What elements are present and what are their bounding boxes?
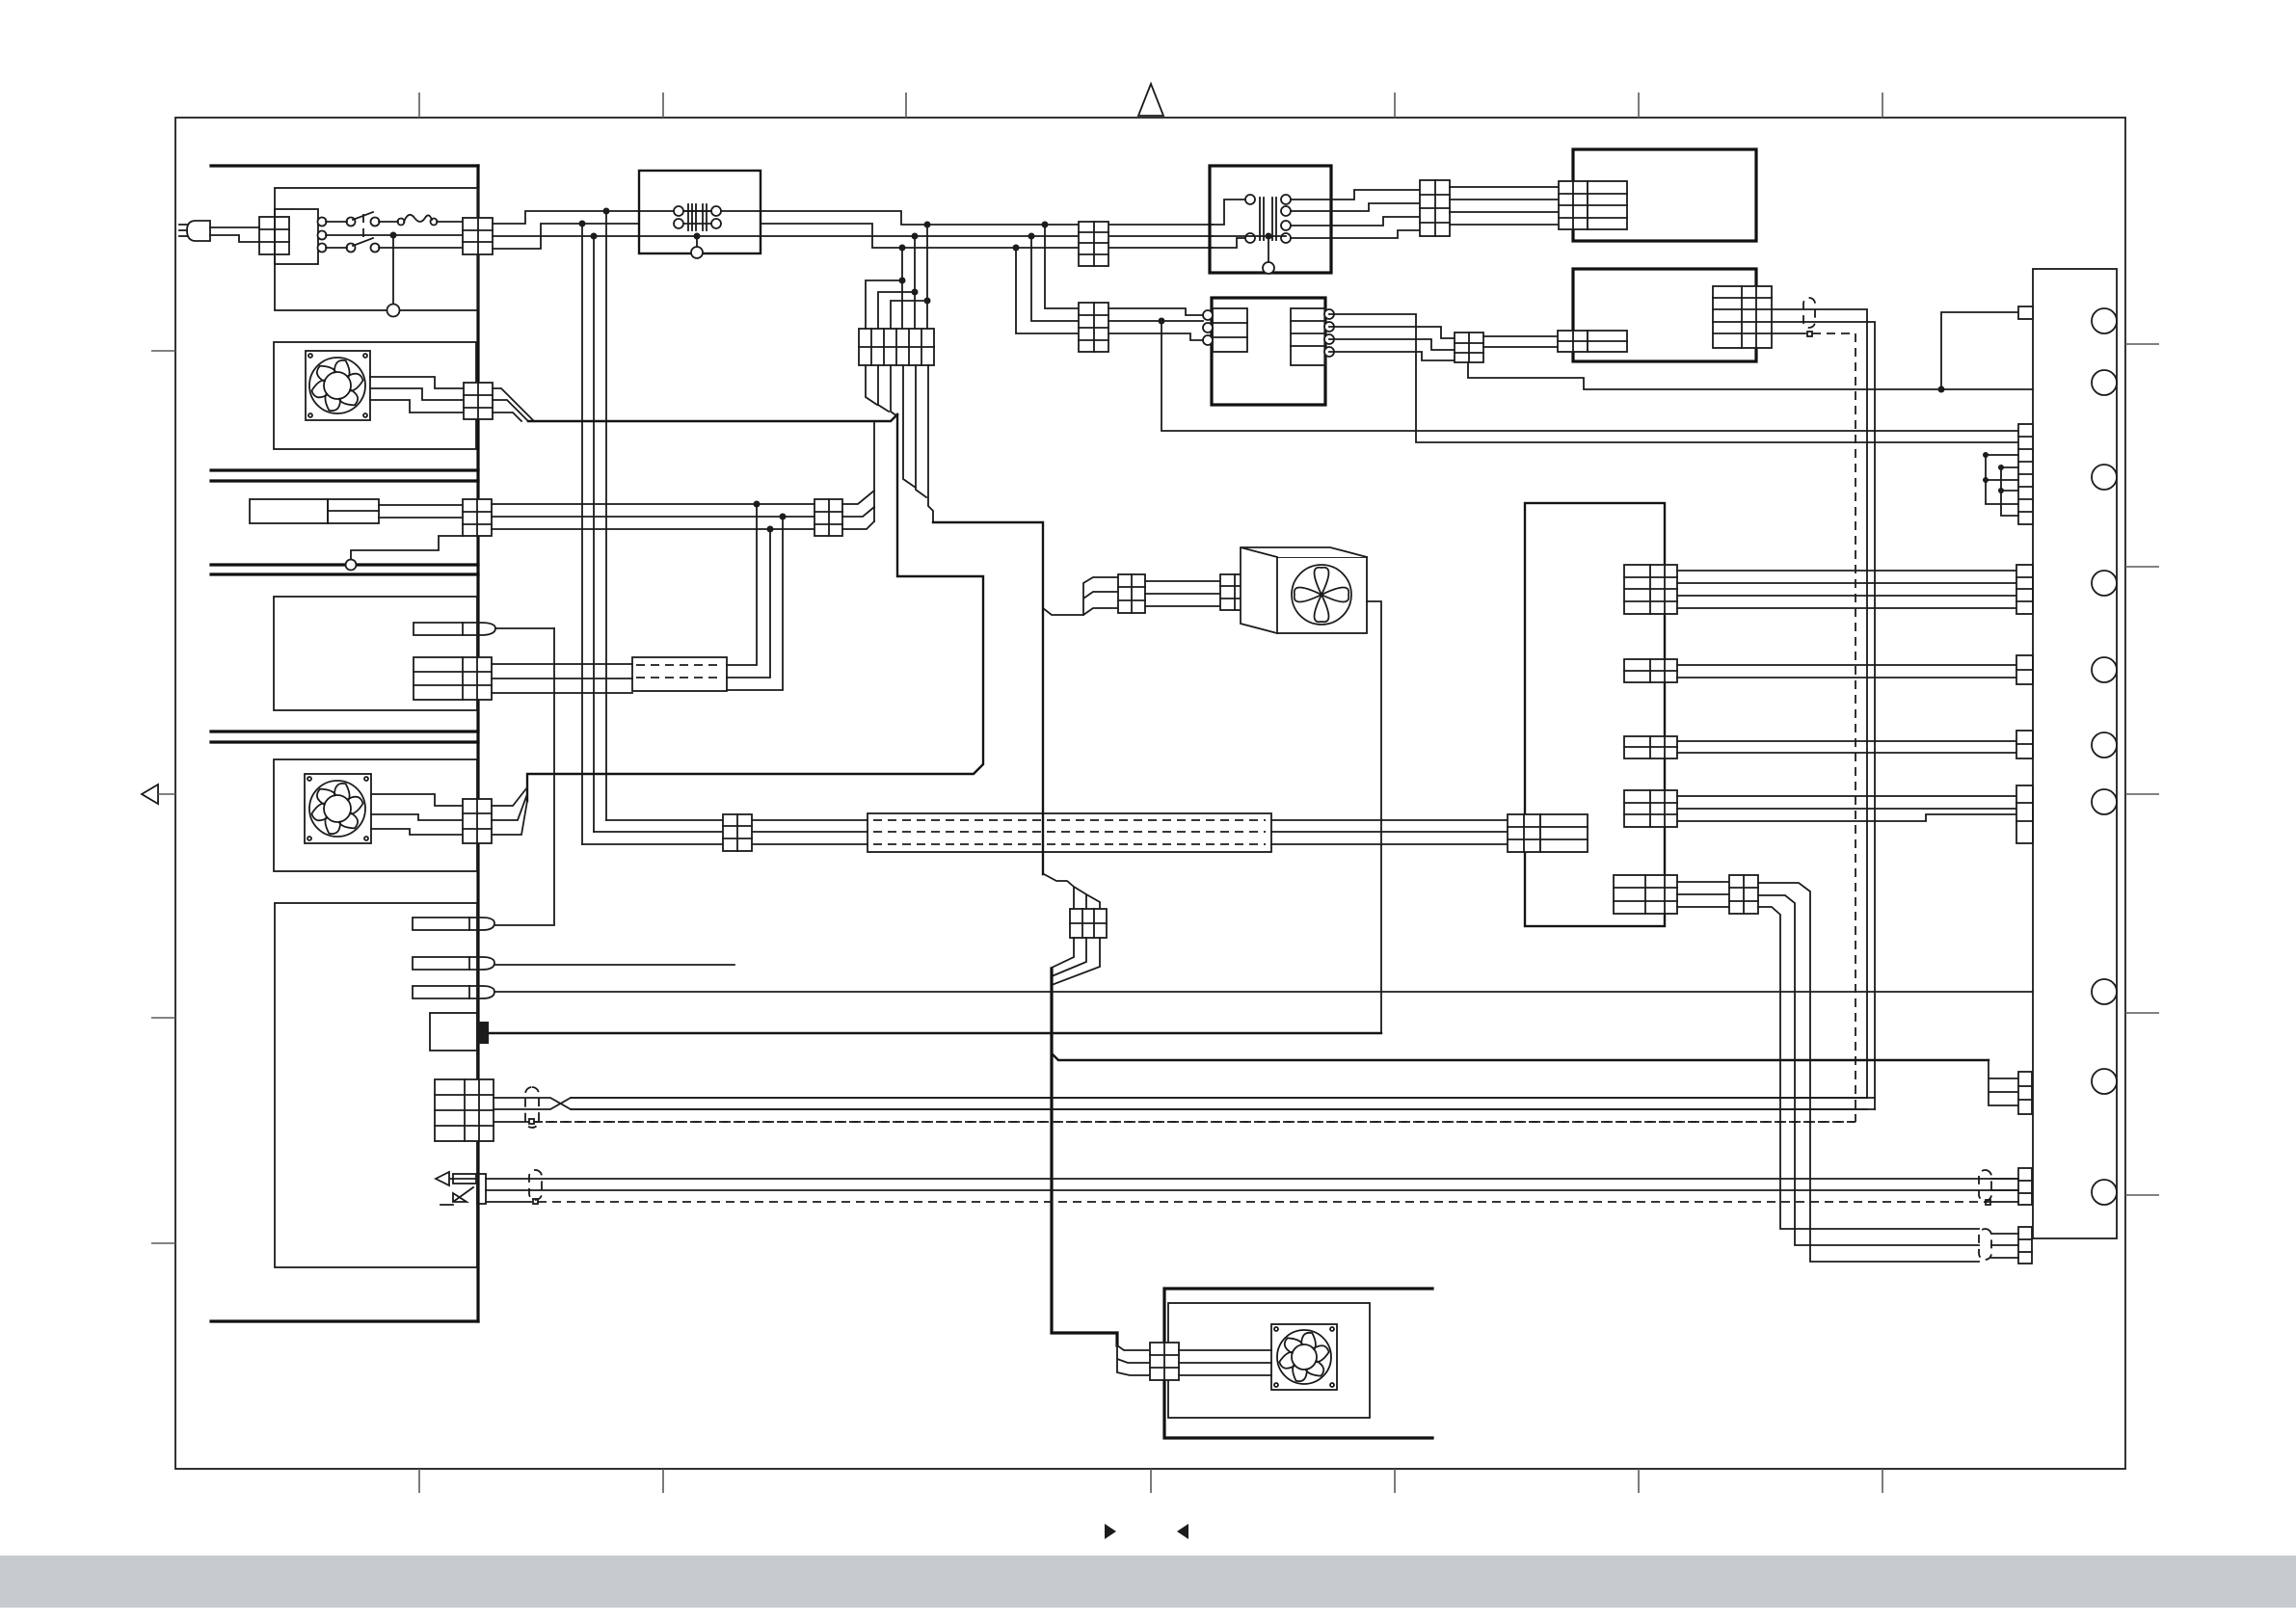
ferrite capsule top [1803, 298, 1815, 328]
tab grid m2 [2016, 655, 2033, 684]
comms wire dashed [494, 1121, 528, 1123]
board hole 10 [2092, 1180, 2117, 1205]
tab stack [2018, 424, 2033, 524]
connector CN fan3 a [1118, 574, 1145, 613]
branch to relay drive [1052, 1053, 1989, 1060]
thermal connector bar [477, 1174, 486, 1204]
junction node a [603, 208, 610, 215]
AC trunk wire N [493, 235, 1213, 237]
bundle below CN heater [1052, 938, 1100, 985]
faston wire 2 [494, 964, 734, 966]
wire sec1 long to tab [1329, 314, 2018, 442]
inlet pins [318, 218, 327, 226]
junction node p [899, 278, 906, 284]
connector CN m2 [1624, 659, 1677, 682]
connector CN psu in [1559, 181, 1627, 229]
comms return bends [571, 1097, 1867, 1099]
comms wire 2 with twist [494, 1098, 1875, 1109]
main board left lower box [275, 903, 477, 1267]
border tick marks left [151, 351, 175, 1243]
m5 drop wires [1758, 883, 1979, 1262]
wire plug to inlet [210, 226, 259, 228]
junction node s [1983, 452, 1989, 458]
junction node g1 [1042, 222, 1049, 228]
fan3 branch steps [1043, 577, 1118, 615]
connector CN mainboard in [1508, 814, 1588, 852]
ctrl out wire 1 [1772, 309, 1867, 1098]
interlock unit box [274, 597, 477, 710]
fan2 enclosure [274, 759, 477, 871]
primary pins [1203, 310, 1213, 320]
AC plug [187, 221, 210, 241]
AC bus step to CN heater [1044, 874, 1100, 909]
connector CN power out [463, 218, 493, 254]
tab IO mid [2018, 1072, 2032, 1114]
vertical drop a [605, 211, 607, 820]
engine board tall box [2033, 269, 2117, 1238]
filter ground [694, 233, 701, 240]
junction node b [579, 221, 586, 227]
connector CN fan2 [463, 799, 492, 843]
connector CN sens2 [814, 499, 842, 536]
ferrite capsule comms [525, 1087, 539, 1128]
page border frame [175, 118, 2125, 1469]
m1 wires [1677, 571, 2016, 608]
board hole 2 [2092, 370, 2117, 395]
sensor wires [379, 504, 463, 506]
ground node [390, 232, 397, 239]
filter windings [688, 204, 707, 230]
fan1 cable out [493, 388, 534, 421]
bottom nav triangle left [1177, 1524, 1188, 1539]
distribution verticals [1986, 455, 2018, 516]
junction node f [899, 245, 906, 252]
faston wire 3 long [494, 991, 2033, 993]
fan1 wires [370, 377, 464, 388]
junction node i [754, 501, 761, 508]
junction node r [924, 298, 931, 305]
fan3 return wire [1367, 601, 1381, 1032]
thermal wire 2 [486, 1189, 2018, 1191]
noise filter box [639, 171, 761, 253]
distribution connector block [859, 329, 934, 365]
vertical trunk drop e [914, 236, 916, 329]
m2 wires [1677, 665, 2016, 678]
riser k [727, 517, 783, 690]
AC bus to heater fan branch [933, 522, 1043, 874]
board hole 5 [2092, 657, 2117, 682]
frame ground hook [351, 536, 463, 560]
connector CN m5 [1614, 875, 1677, 914]
connector CN sub in [1079, 303, 1108, 352]
relay drive thick wire [489, 1032, 1381, 1034]
junction node g2 [1028, 233, 1035, 240]
comms wire 1 with twist [494, 1098, 1867, 1109]
junction node q [912, 289, 919, 296]
fan3 link wires [1145, 581, 1220, 606]
left alignment triangle [142, 785, 158, 804]
connector CN m5b [1729, 875, 1758, 914]
wires to sub board [1483, 335, 1558, 337]
bottom nav triangle right [1105, 1524, 1116, 1539]
filter winding pins [674, 206, 683, 216]
fan1 trunk cable [528, 414, 897, 421]
bundle steps into CN fan4 [1117, 1345, 1150, 1375]
connector CN ctrl out [1713, 286, 1772, 348]
border tick marks top [419, 93, 1882, 118]
tab A [2018, 1168, 2032, 1205]
fan1 enclosure [274, 342, 476, 449]
power switch pole 1 [347, 218, 356, 226]
main bundle vertical [1052, 969, 1117, 1345]
fan2 wires [371, 794, 463, 806]
AC inlet sub box [275, 209, 318, 264]
AC distribution wires to flat cable [606, 819, 868, 821]
connector CN acdist [723, 814, 752, 851]
door switch sensor body [250, 499, 328, 523]
connector CN ctrl in [1558, 331, 1627, 352]
AC trunk wire L [493, 211, 1213, 225]
junction node t [1998, 465, 2004, 470]
connector CN heater [1070, 909, 1107, 938]
junction node v [1998, 488, 2004, 493]
relay out wires [1291, 190, 1420, 200]
junction node g [1159, 318, 1165, 325]
border tick marks bottom [419, 1469, 1882, 1493]
secondary block [1291, 308, 1325, 365]
filter pass wires [683, 210, 711, 212]
connector CN fan4 [1150, 1343, 1179, 1380]
relay module box [430, 1013, 477, 1051]
ferrite capsule A [1979, 1170, 1991, 1201]
junction node k [780, 514, 787, 520]
fan4 [1271, 1324, 1337, 1390]
wire E [326, 247, 347, 249]
top center alignment triangle [1138, 84, 1163, 116]
faston terminal 2 [413, 957, 494, 970]
thermistor terminal [414, 623, 495, 635]
AC inlet connector [259, 217, 289, 254]
AC trunk wire E [493, 224, 639, 249]
board hole 7 [2092, 789, 2117, 814]
connector CN fan3 b [1220, 574, 1248, 610]
m4 wires [1677, 796, 2016, 809]
connector CN m1 [1624, 565, 1677, 614]
board hole 9 [2092, 1069, 2117, 1094]
PSU board box [1573, 149, 1756, 241]
riser i [727, 504, 757, 665]
junction node g3 [1013, 245, 1020, 252]
junction node l [767, 526, 774, 533]
wires into tab A [1991, 1179, 2018, 1190]
vertical drop c [593, 236, 595, 832]
fan2 cable steps [492, 787, 527, 835]
relay coil pins right [1281, 195, 1291, 204]
tab grid m4 [2016, 785, 2033, 843]
border tick marks right [2125, 344, 2159, 1195]
connector CN sensor [463, 499, 492, 536]
connector CN m3 [1624, 736, 1677, 758]
vertical drop b [581, 224, 583, 844]
tab B [2018, 1227, 2032, 1264]
board hole 1 [2092, 308, 2117, 333]
m3 wires [1677, 741, 2016, 753]
dist cable down left to AC cable [866, 365, 897, 416]
controller board box [1573, 269, 1756, 361]
ctrl out wire 3 dashed [1772, 333, 1805, 334]
relay internal wiring [1213, 200, 1245, 225]
tab grid m1 [2016, 565, 2033, 614]
relay coil pins left [1245, 195, 1255, 204]
faston terminal 1 [413, 918, 494, 930]
connector CN interlock [414, 657, 492, 700]
junction node h [1938, 386, 1945, 393]
fuse [398, 219, 405, 226]
door switch head [328, 499, 379, 523]
wire L1 [326, 221, 347, 223]
thermal wire dashed [486, 1201, 531, 1203]
relay windings [1260, 198, 1276, 240]
fan1 [306, 351, 370, 420]
m5 link wires [1677, 882, 1729, 907]
wires to PSU board [1450, 186, 1559, 188]
relay tab black [477, 1022, 489, 1044]
power entry unit box [275, 188, 478, 310]
bottom gray footer bar [0, 1556, 2296, 1608]
connector CN main sw out [1420, 180, 1450, 236]
wire under sub board [1468, 362, 2033, 389]
tab grid m3 [2016, 731, 2033, 758]
board hole 6 [2092, 732, 2117, 758]
switch mechanical link [362, 214, 364, 243]
sub transformer primary block [1213, 308, 1247, 352]
vertical trunk drop d [926, 225, 928, 329]
flat cable to main board [1271, 819, 1508, 821]
ctrl out wire 2 [1772, 322, 1875, 1109]
sub transformer box [1212, 298, 1325, 405]
faston wire 1 [494, 628, 554, 925]
thermal switch [436, 1172, 478, 1205]
ferrite capsule thermal [529, 1170, 542, 1200]
board hole 4 [2092, 571, 2117, 596]
wires secondary to CN out [1329, 327, 1455, 338]
dist hooks left [866, 280, 902, 329]
board hole 3 [2092, 465, 2117, 490]
shielded sleeve small [632, 657, 727, 691]
junction node d [924, 222, 931, 228]
secondary pins [1324, 309, 1334, 319]
wire N [326, 234, 463, 236]
relay transformer box [1210, 166, 1331, 273]
riser l [727, 529, 770, 678]
main pcb box [1525, 503, 1665, 926]
dist cable down right [903, 365, 933, 522]
board hole 8 [2092, 979, 2117, 1004]
wire from junction g to tab [1161, 321, 2018, 431]
fan2 [305, 774, 371, 843]
junction node u [1983, 477, 1989, 483]
junction node e [912, 233, 919, 240]
wires into tab B [1991, 1234, 2018, 1258]
faston terminal 3 [413, 986, 494, 998]
junction node c [591, 233, 598, 240]
sens2 riser to trunk [842, 491, 874, 529]
inline connector on AC trunk [1079, 222, 1108, 266]
connector CN sub out [1455, 333, 1483, 362]
sensor bus [492, 503, 814, 505]
step into CN IO [1989, 1060, 2018, 1105]
left unit column frame lines [211, 166, 478, 1321]
thermal wire 1 [486, 1178, 2018, 1180]
fan4 wires [1179, 1350, 1271, 1375]
connector CN comms [435, 1079, 494, 1141]
connector CN fan1 [464, 383, 493, 419]
ferrite capsule B [1979, 1229, 1991, 1260]
wires sub connector to primary [1108, 308, 1203, 315]
fan3 cube [1241, 547, 1367, 633]
relay center tap [1213, 235, 1286, 237]
tab single top [2018, 306, 2033, 319]
interlock wires [492, 663, 632, 665]
fan4 duct outline [1164, 1289, 1432, 1438]
shielded flat cable [868, 813, 1271, 852]
fan4 inner box [1168, 1303, 1370, 1418]
AC cable to fan2 staircase [527, 414, 983, 801]
connector CN m4 [1624, 790, 1677, 827]
drop wires to sub connector [1045, 225, 1079, 308]
vertical trunk drop f [901, 248, 903, 329]
power switch pole 2 [347, 244, 356, 253]
